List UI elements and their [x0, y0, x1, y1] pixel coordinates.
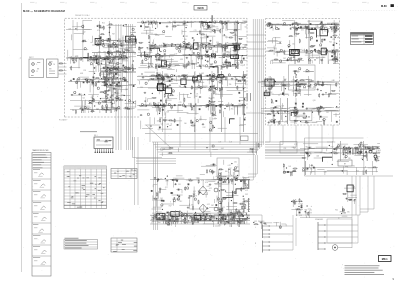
capacitor C560 — [150, 22, 151, 24]
svg-text:D11: D11 — [231, 197, 234, 199]
resistor R542 — [158, 56, 160, 57]
notes table left — [64, 238, 98, 249]
capacitor C1204 — [318, 84, 319, 86]
svg-text:6.8K: 6.8K — [143, 106, 146, 108]
diode D215 — [105, 58, 106, 59]
svg-text:2SC: 2SC — [160, 198, 163, 200]
junction node 922 — [132, 101, 135, 104]
resistor R813 — [190, 119, 192, 120]
junction node 1583 — [215, 217, 218, 220]
junction node 653 — [220, 79, 223, 82]
junction node 1685 — [331, 163, 334, 166]
junction node 1345 — [205, 218, 208, 221]
junction node 129 — [93, 72, 96, 75]
capacitor C1653 — [342, 153, 343, 155]
transistor Q545 — [207, 55, 209, 57]
transistor Q554 — [209, 47, 211, 49]
svg-text:R56: R56 — [221, 105, 224, 107]
transistor Q810 — [162, 87, 164, 89]
junction node 728 — [189, 92, 192, 95]
resistor R789 — [221, 86, 223, 87]
resistor R681 — [237, 80, 238, 82]
svg-text:4.7K: 4.7K — [159, 45, 162, 47]
junction node 604 — [182, 44, 185, 47]
diode D1028 — [333, 44, 334, 45]
capacitor C455 — [235, 42, 236, 44]
capacitor C176 — [119, 78, 120, 80]
wire — [298, 94, 300, 96]
resistor R1616 — [372, 146, 374, 147]
diode D750 — [192, 122, 193, 123]
transistor Q335 — [153, 21, 155, 23]
junction node 1114 — [314, 50, 317, 53]
transistor Q999 — [320, 44, 322, 46]
transistor Q355 — [164, 50, 166, 52]
resistor R1720 — [236, 211, 237, 213]
diode D1502 — [225, 218, 226, 219]
resistor R758 — [219, 109, 221, 110]
wire bundle - tone sub-box upper interior — [293, 72, 314, 90]
wire — [158, 220, 161, 223]
junction node 1657 — [328, 144, 331, 147]
transistor Q713 — [217, 75, 219, 77]
resistor R1591 — [161, 214, 163, 215]
resistor R1508 — [239, 203, 240, 205]
transistor Q1844 — [164, 62, 166, 64]
junction node 1328 — [187, 220, 190, 223]
junction node 1812 — [228, 168, 231, 171]
resistor R142 — [112, 79, 114, 80]
resistor R757 — [174, 118, 176, 119]
svg-text:100: 100 — [209, 25, 212, 27]
svg-text:2SC: 2SC — [270, 92, 273, 94]
wire — [107, 53, 110, 55]
resistor R1200 — [317, 80, 319, 81]
junction node 379 — [237, 22, 240, 25]
resistor R413 — [199, 30, 201, 31]
capacitor C1312 — [158, 217, 159, 219]
wire — [147, 56, 148, 60]
transistor Q222 — [86, 79, 88, 81]
diode D700 — [209, 74, 210, 75]
capacitor C229 — [90, 79, 91, 81]
junction node 1573 — [161, 208, 164, 211]
transistor Q255 — [78, 78, 80, 80]
wire — [204, 26, 208, 29]
svg-text:47u: 47u — [166, 44, 169, 46]
junction node 532 — [223, 33, 226, 36]
junction node 1436 — [236, 174, 239, 177]
transistor Q995 — [288, 44, 290, 46]
diode D93 — [95, 56, 96, 57]
transistor Q1041 — [288, 58, 290, 60]
junction node 1330 — [199, 191, 202, 194]
resistor R1243 — [320, 105, 322, 106]
transistor Q695 — [168, 103, 170, 105]
resistor R484 — [200, 33, 201, 35]
junction node 1238 — [284, 115, 287, 118]
resistor R1042 — [289, 53, 290, 55]
junction node 1802 — [348, 198, 351, 201]
small parts table upper — [111, 169, 137, 179]
wire — [149, 80, 151, 82]
svg-text:Q05: Q05 — [103, 52, 106, 54]
input jack J1 — [32, 63, 35, 66]
junction node 359 — [205, 44, 208, 47]
transistor Q1081 — [310, 50, 312, 52]
resistor R80 — [106, 40, 107, 42]
svg-text:Q05: Q05 — [211, 78, 214, 80]
resistor R1448 — [159, 189, 161, 190]
resistor R1555 — [193, 216, 195, 217]
wire — [165, 65, 170, 69]
main amp area bottom rail — [145, 133, 258, 135]
wire — [297, 22, 301, 23]
resistor R1647 — [366, 147, 367, 149]
diode D1294 — [295, 80, 296, 81]
junction node 987 — [279, 41, 282, 44]
resistor R1680 — [372, 166, 373, 168]
transistor Q1730 — [209, 215, 211, 217]
transistor Q973 — [105, 100, 107, 102]
resistor R1022 — [299, 39, 301, 40]
transistor Q1335 — [173, 199, 175, 201]
junction node 814 — [196, 75, 199, 78]
diode D1348 — [241, 214, 242, 215]
wire bundle - preamp upper stage — [92, 21, 136, 63]
resistor R480 — [198, 55, 199, 57]
transistor Q1322 — [161, 204, 163, 206]
wire — [219, 53, 224, 55]
diode D1511 — [206, 214, 207, 215]
transistor Q53 — [96, 40, 98, 42]
transistor Q27 — [131, 34, 133, 36]
resistor R519 — [221, 44, 223, 45]
resistor R1026 — [290, 57, 292, 58]
transistor Q1323 — [181, 214, 183, 216]
resistor R1054 — [306, 49, 308, 50]
resistor R1601 — [362, 155, 363, 157]
resistor R899 — [117, 69, 118, 71]
junction node 1475 — [230, 199, 233, 202]
svg-text:C21: C21 — [227, 63, 230, 65]
svg-text:R12: R12 — [306, 146, 309, 148]
wire — [176, 189, 182, 193]
svg-text:100: 100 — [371, 149, 374, 151]
capacitor C507 — [191, 37, 192, 39]
junction node 864 — [243, 103, 246, 106]
junction node 461 — [212, 53, 215, 56]
junction node 414 — [192, 42, 195, 45]
transistor Q1829 — [212, 145, 214, 147]
capacitor C1078 — [320, 59, 321, 61]
wire — [234, 176, 237, 179]
diode D1579 — [151, 190, 152, 191]
op-amp stage outline U608 — [224, 62, 230, 67]
transistor Q518 — [157, 53, 159, 55]
transistor Q1295 — [306, 70, 308, 72]
diode D1264 — [274, 122, 275, 123]
svg-text:4.7K: 4.7K — [322, 52, 325, 54]
resistor R1241 — [317, 111, 318, 113]
wire — [345, 166, 348, 169]
resistor R1381 — [233, 202, 234, 204]
wire — [230, 175, 231, 176]
resistor R182 — [112, 56, 114, 57]
svg-text:10K: 10K — [335, 50, 338, 52]
speaker wiring — [326, 215, 359, 248]
svg-text:1K: 1K — [208, 97, 210, 99]
wire — [321, 23, 323, 25]
capacitor C137 — [92, 57, 93, 59]
diode D1607 — [306, 153, 307, 154]
resistor R361 — [138, 47, 139, 49]
svg-text:C34: C34 — [269, 120, 272, 122]
transistor Q540 — [146, 54, 148, 56]
resistor R1354 — [233, 213, 235, 214]
resistor R920 — [127, 68, 128, 70]
transistor Q1109 — [320, 26, 322, 28]
input jack J2 — [32, 70, 35, 73]
capacitor C568 — [192, 52, 193, 54]
wire bundle - bottom center circuit — [152, 210, 242, 227]
junction node 358 — [242, 46, 245, 49]
diode D1280 — [336, 121, 337, 122]
svg-text:C34: C34 — [324, 24, 327, 26]
junction node 512 — [226, 45, 229, 48]
junction node 100 — [125, 23, 128, 26]
svg-text:100: 100 — [265, 224, 268, 226]
transistor Q502 — [179, 50, 181, 52]
junction node 930 — [110, 84, 113, 87]
svg-text:Q05: Q05 — [234, 34, 237, 36]
svg-text:D11: D11 — [105, 80, 108, 82]
resistor R1031 — [334, 50, 336, 51]
diode D1363 — [220, 214, 221, 215]
resistor R729 — [210, 75, 212, 76]
resistor R1590 — [175, 214, 177, 215]
capacitor C145 — [104, 78, 105, 80]
wire — [367, 146, 368, 148]
resistor R1194 — [281, 84, 282, 86]
capacitor C772 — [243, 98, 244, 100]
transistor Q288 — [176, 47, 178, 49]
resistor R1452 — [228, 179, 230, 180]
resistor R1137 — [267, 23, 268, 25]
resistor R394 — [235, 55, 237, 56]
transistor Q6 — [82, 25, 84, 27]
resistor R974 — [128, 66, 130, 67]
svg-text:10K: 10K — [177, 25, 180, 27]
transistor Q1351 — [200, 217, 202, 219]
resistor R1837 — [168, 147, 169, 149]
diode D1411 — [200, 215, 201, 216]
diode D531 — [206, 51, 207, 52]
junction node 240 — [95, 58, 98, 61]
wire — [169, 201, 172, 204]
capacitor C1414 — [222, 218, 223, 220]
resistor R1025 — [298, 58, 299, 60]
transistor Q968 — [110, 69, 112, 71]
diode D1509 — [240, 180, 241, 181]
resistor R1226 — [323, 120, 325, 121]
op-amp stage outline U1287 — [296, 84, 307, 91]
transistor Q693 — [171, 74, 173, 76]
svg-text:0.22: 0.22 — [174, 54, 177, 56]
resistor R1823 — [206, 169, 208, 170]
junction node 1380 — [246, 216, 249, 219]
junction node 612 — [185, 26, 188, 29]
op-amp stage outline U770 — [157, 72, 165, 79]
resistor R1332 — [243, 218, 244, 220]
resistor R1065 — [333, 27, 334, 29]
resistor R1830 — [258, 143, 260, 144]
diode D1624 — [349, 151, 350, 152]
capacitor C665 — [199, 96, 200, 98]
junction node 376 — [154, 55, 157, 58]
capacitor C1628 — [336, 146, 337, 148]
resistor R941 — [132, 67, 134, 68]
wire — [227, 103, 232, 104]
capacitor C1336 — [158, 217, 159, 219]
semiconductor table top right — [351, 33, 374, 45]
wire — [235, 22, 238, 25]
junction node 785 — [209, 85, 212, 88]
resistor R1299 — [294, 70, 296, 71]
transistor Q765 — [141, 103, 143, 105]
diode D84 — [119, 58, 120, 59]
transistor Q7 — [84, 48, 86, 50]
diode D1421 — [172, 179, 173, 180]
transistor Q64 — [122, 55, 124, 57]
svg-text:10K: 10K — [125, 40, 128, 42]
resistor R157 — [93, 57, 94, 59]
svg-text:22K: 22K — [212, 97, 215, 99]
svg-text:R12: R12 — [219, 43, 222, 45]
junction node 1006 — [331, 49, 334, 52]
svg-text:R12: R12 — [185, 36, 188, 38]
transistor Q388 — [205, 65, 207, 67]
wire — [212, 117, 216, 120]
resistor R1748 — [283, 163, 285, 164]
junction node 607 — [154, 27, 157, 30]
muting bus wires — [296, 214, 360, 216]
capacitor C337 — [202, 44, 203, 46]
resistor R1288 — [296, 85, 297, 87]
junction node 1191 — [320, 84, 323, 87]
svg-text:1815: 1815 — [112, 108, 115, 110]
transistor Q275 — [98, 102, 100, 104]
junction node 804 — [207, 104, 210, 107]
diode D958 — [106, 84, 107, 85]
svg-text:D11: D11 — [301, 29, 304, 31]
resistor R346 — [150, 47, 152, 48]
svg-text:1K: 1K — [239, 76, 241, 78]
svg-text:4.7K: 4.7K — [75, 56, 78, 58]
svg-text:10K: 10K — [310, 84, 313, 86]
resistor R1324 — [235, 208, 237, 209]
junction node 443 — [241, 54, 244, 57]
resistor R424 — [224, 21, 226, 22]
resistor R1172 — [335, 82, 337, 83]
resistor R1471 — [218, 178, 219, 180]
svg-text:R07: R07 — [97, 82, 100, 84]
op-amp stage outline U699 — [218, 75, 223, 78]
svg-text:D11: D11 — [326, 112, 329, 114]
svg-text:C18: C18 — [126, 82, 129, 84]
resistor R1633 — [307, 153, 309, 154]
svg-text:2SC: 2SC — [124, 70, 127, 72]
bridge rectifier DB1 — [199, 186, 207, 195]
transistor Q1265 — [317, 108, 319, 110]
wire — [212, 111, 216, 114]
diode D1567 — [203, 215, 204, 216]
svg-text:2SC: 2SC — [231, 108, 234, 110]
svg-text:330: 330 — [72, 110, 75, 112]
resistor R1256 — [272, 110, 274, 111]
svg-text:R07: R07 — [210, 65, 213, 67]
transistor Q1605 — [370, 148, 372, 150]
resistor R574 — [221, 21, 223, 22]
resistor R410 — [186, 47, 187, 49]
svg-text:1K: 1K — [304, 149, 306, 151]
resistor R1097 — [266, 25, 267, 27]
svg-text:2SC: 2SC — [283, 58, 286, 60]
wire bundle - muting transistor cluster left — [305, 206, 312, 218]
junction node 1362 — [240, 213, 243, 216]
svg-text:10K: 10K — [183, 21, 186, 23]
resistor R150 — [86, 81, 87, 83]
junction node 403 — [234, 49, 237, 52]
capacitor C1117 — [331, 59, 332, 61]
capacitor C1674 — [310, 164, 311, 166]
resistor R912 — [106, 106, 108, 107]
svg-text:22K: 22K — [221, 78, 224, 80]
resistor R670 — [218, 105, 219, 107]
transistor Q1630 — [345, 155, 347, 157]
resistor R260 — [92, 97, 94, 98]
wire bundle - main amp upper stage — [137, 21, 247, 70]
wire — [295, 75, 297, 78]
resistor R1177 — [322, 81, 324, 82]
resistor R283 — [75, 109, 77, 110]
resistor R897 — [117, 85, 118, 87]
diode D1512 — [176, 180, 177, 181]
junction node 833 — [160, 76, 163, 79]
op-amp stage outline U818 — [197, 76, 201, 80]
transistor Q649 — [215, 76, 217, 78]
svg-text:100: 100 — [165, 218, 168, 220]
svg-text:4.7K: 4.7K — [361, 158, 364, 160]
transistor Q919 — [118, 106, 120, 108]
resistor R756 — [157, 74, 158, 76]
wire bundle - speaker relay cluster — [344, 188, 357, 204]
psu connector CB1 — [243, 179, 251, 189]
resistor R165 — [107, 77, 109, 78]
resistor R1442 — [185, 215, 186, 217]
capacitor C591 — [179, 45, 180, 47]
wire — [214, 176, 218, 179]
svg-text:C21: C21 — [285, 121, 288, 123]
transistor Q458 — [145, 58, 147, 60]
junction node 590 — [186, 21, 189, 24]
resistor R1011 — [332, 35, 333, 37]
diode D162 — [125, 80, 126, 81]
junction node 737 — [224, 107, 227, 110]
wire bundle - muting row bottom — [262, 222, 281, 229]
diode D1721 — [233, 217, 234, 218]
op-amp stage outline U828 — [165, 88, 171, 94]
